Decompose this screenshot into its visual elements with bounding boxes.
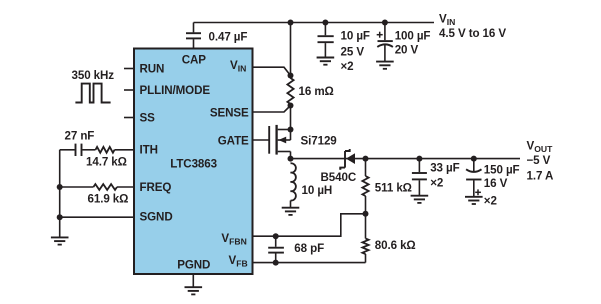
- svg-text:16 V: 16 V: [484, 177, 508, 190]
- svg-text:68 pF: 68 pF: [294, 242, 324, 255]
- svg-text:×2: ×2: [341, 60, 354, 73]
- svg-text:80.6 kΩ: 80.6 kΩ: [375, 239, 416, 252]
- svg-text:20 V: 20 V: [395, 43, 419, 56]
- svg-text:4.5 V to 16 V: 4.5 V to 16 V: [439, 27, 506, 40]
- svg-text:GATE: GATE: [218, 135, 249, 148]
- svg-text:150 µF: 150 µF: [484, 163, 520, 176]
- svg-text:×2: ×2: [484, 194, 497, 207]
- svg-text:0.47 µF: 0.47 µF: [209, 30, 248, 43]
- svg-text:10 µF: 10 µF: [341, 30, 370, 43]
- svg-text:PGND: PGND: [177, 259, 210, 272]
- svg-text:−5 V: −5 V: [527, 154, 551, 167]
- svg-text:350 kHz: 350 kHz: [72, 69, 115, 82]
- svg-text:FREQ: FREQ: [140, 181, 172, 194]
- svg-text:Si7129: Si7129: [301, 134, 338, 147]
- svg-text:33 µF: 33 µF: [430, 161, 459, 174]
- svg-text:SS: SS: [140, 112, 156, 125]
- svg-text:PLLIN/MODE: PLLIN/MODE: [140, 84, 211, 97]
- svg-text:511 kΩ: 511 kΩ: [375, 182, 412, 195]
- svg-text:61.9 kΩ: 61.9 kΩ: [88, 193, 129, 206]
- svg-text:14.7 kΩ: 14.7 kΩ: [86, 156, 127, 169]
- svg-text:16 mΩ: 16 mΩ: [299, 85, 334, 98]
- svg-text:LTC3863: LTC3863: [170, 158, 217, 171]
- svg-text:SGND: SGND: [140, 211, 173, 224]
- svg-text:RUN: RUN: [140, 63, 165, 76]
- svg-text:B540C: B540C: [321, 171, 357, 184]
- svg-text:SENSE: SENSE: [210, 107, 249, 120]
- svg-text:100 µF: 100 µF: [395, 30, 431, 43]
- svg-text:27 nF: 27 nF: [65, 130, 95, 143]
- svg-text:1.7 A: 1.7 A: [527, 169, 555, 182]
- svg-text:CAP: CAP: [182, 54, 207, 67]
- svg-text:×2: ×2: [430, 176, 443, 189]
- svg-text:25 V: 25 V: [341, 45, 365, 58]
- svg-text:ITH: ITH: [140, 144, 158, 157]
- svg-text:10 µH: 10 µH: [302, 184, 333, 197]
